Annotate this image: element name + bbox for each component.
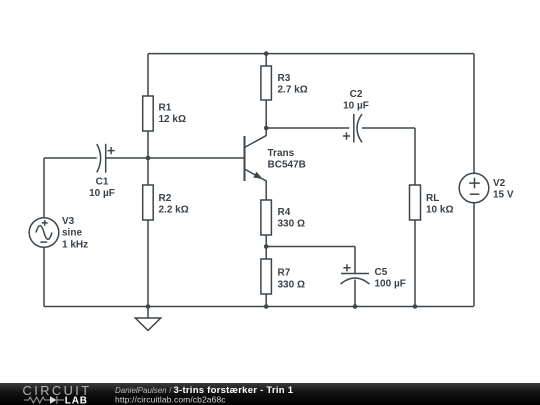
svg-text:R1: R1: [159, 103, 172, 114]
logo resistor-diode glyph: [24, 396, 64, 404]
resistor R1: [143, 96, 154, 131]
resistor R2: [143, 185, 154, 220]
wire collector to C2: [266, 127, 349, 129]
svg-text:330 Ω: 330 Ω: [278, 219, 305, 230]
node junction top rail R3: [264, 51, 269, 56]
svg-text:BC547B: BC547B: [268, 160, 306, 171]
wire bottom rail: [44, 306, 474, 308]
transistor Q1 Trans BC547B: [245, 136, 263, 181]
node junction emitter R4/R7: [264, 244, 269, 249]
node junction ground: [146, 304, 151, 309]
wire R3 branch: [265, 54, 267, 128]
svg-text:100 µF: 100 µF: [375, 279, 406, 290]
wire right column top: [473, 54, 475, 174]
wire R7 to ground rail: [265, 294, 267, 307]
node junction base: [146, 156, 151, 161]
resistor R3: [261, 66, 272, 100]
capacitor C1: [97, 144, 115, 173]
wire top rail: [148, 53, 474, 55]
svg-text:2.7 kΩ: 2.7 kΩ: [278, 85, 308, 96]
svg-text:V2: V2: [493, 178, 506, 189]
svg-text:R7: R7: [278, 268, 291, 279]
wire C5 branch: [266, 247, 355, 307]
resistor R4: [261, 200, 272, 235]
capacitor C5: [341, 264, 370, 284]
svg-text:RL: RL: [426, 193, 439, 204]
ground: [135, 307, 160, 331]
svg-text:http://circuitlab.com/cb2a68c: http://circuitlab.com/cb2a68c: [115, 395, 226, 405]
source V3 sine: [29, 218, 59, 248]
svg-text:1 kHz: 1 kHz: [62, 239, 88, 250]
capacitor C2: [343, 114, 362, 143]
svg-text:sine: sine: [62, 228, 82, 239]
svg-text:LAB: LAB: [65, 396, 88, 405]
svg-text:R2: R2: [159, 193, 172, 204]
svg-text:10 µF: 10 µF: [343, 101, 369, 112]
svg-text:R3: R3: [278, 73, 291, 84]
wire RL bottom: [414, 220, 416, 307]
wire right column bottom: [473, 203, 475, 306]
wire C2 to RL: [362, 128, 415, 185]
wire R2 branch: [147, 158, 149, 307]
node junction C5 bottom: [353, 304, 358, 309]
wire R1 branch: [147, 54, 149, 158]
node junction RL bottom: [413, 304, 418, 309]
wire left column below C1: [43, 158, 45, 307]
node junction R7 bottom: [264, 304, 269, 309]
wire collector stub: [245, 128, 267, 148]
svg-text:10 kΩ: 10 kΩ: [426, 205, 453, 216]
wire base line: [44, 157, 245, 159]
svg-text:C1: C1: [96, 177, 109, 188]
node junction collector: [264, 126, 269, 131]
svg-text:330 Ω: 330 Ω: [278, 280, 305, 291]
svg-text:12 kΩ: 12 kΩ: [159, 114, 186, 125]
source V2 15V: [459, 173, 489, 203]
svg-text:C2: C2: [350, 89, 363, 100]
svg-text:V3: V3: [62, 216, 75, 227]
svg-text:15 V: 15 V: [493, 190, 514, 201]
wire emitter stub: [245, 169, 267, 200]
svg-text:2.2 kΩ: 2.2 kΩ: [159, 205, 189, 216]
resistor R7: [261, 259, 272, 294]
svg-text:10 µF: 10 µF: [89, 188, 115, 199]
svg-text:Trans: Trans: [268, 148, 295, 159]
wire R4 to R7: [265, 235, 267, 259]
svg-text:C5: C5: [375, 267, 388, 278]
svg-text:R4: R4: [278, 207, 291, 218]
resistor RL: [410, 185, 421, 220]
